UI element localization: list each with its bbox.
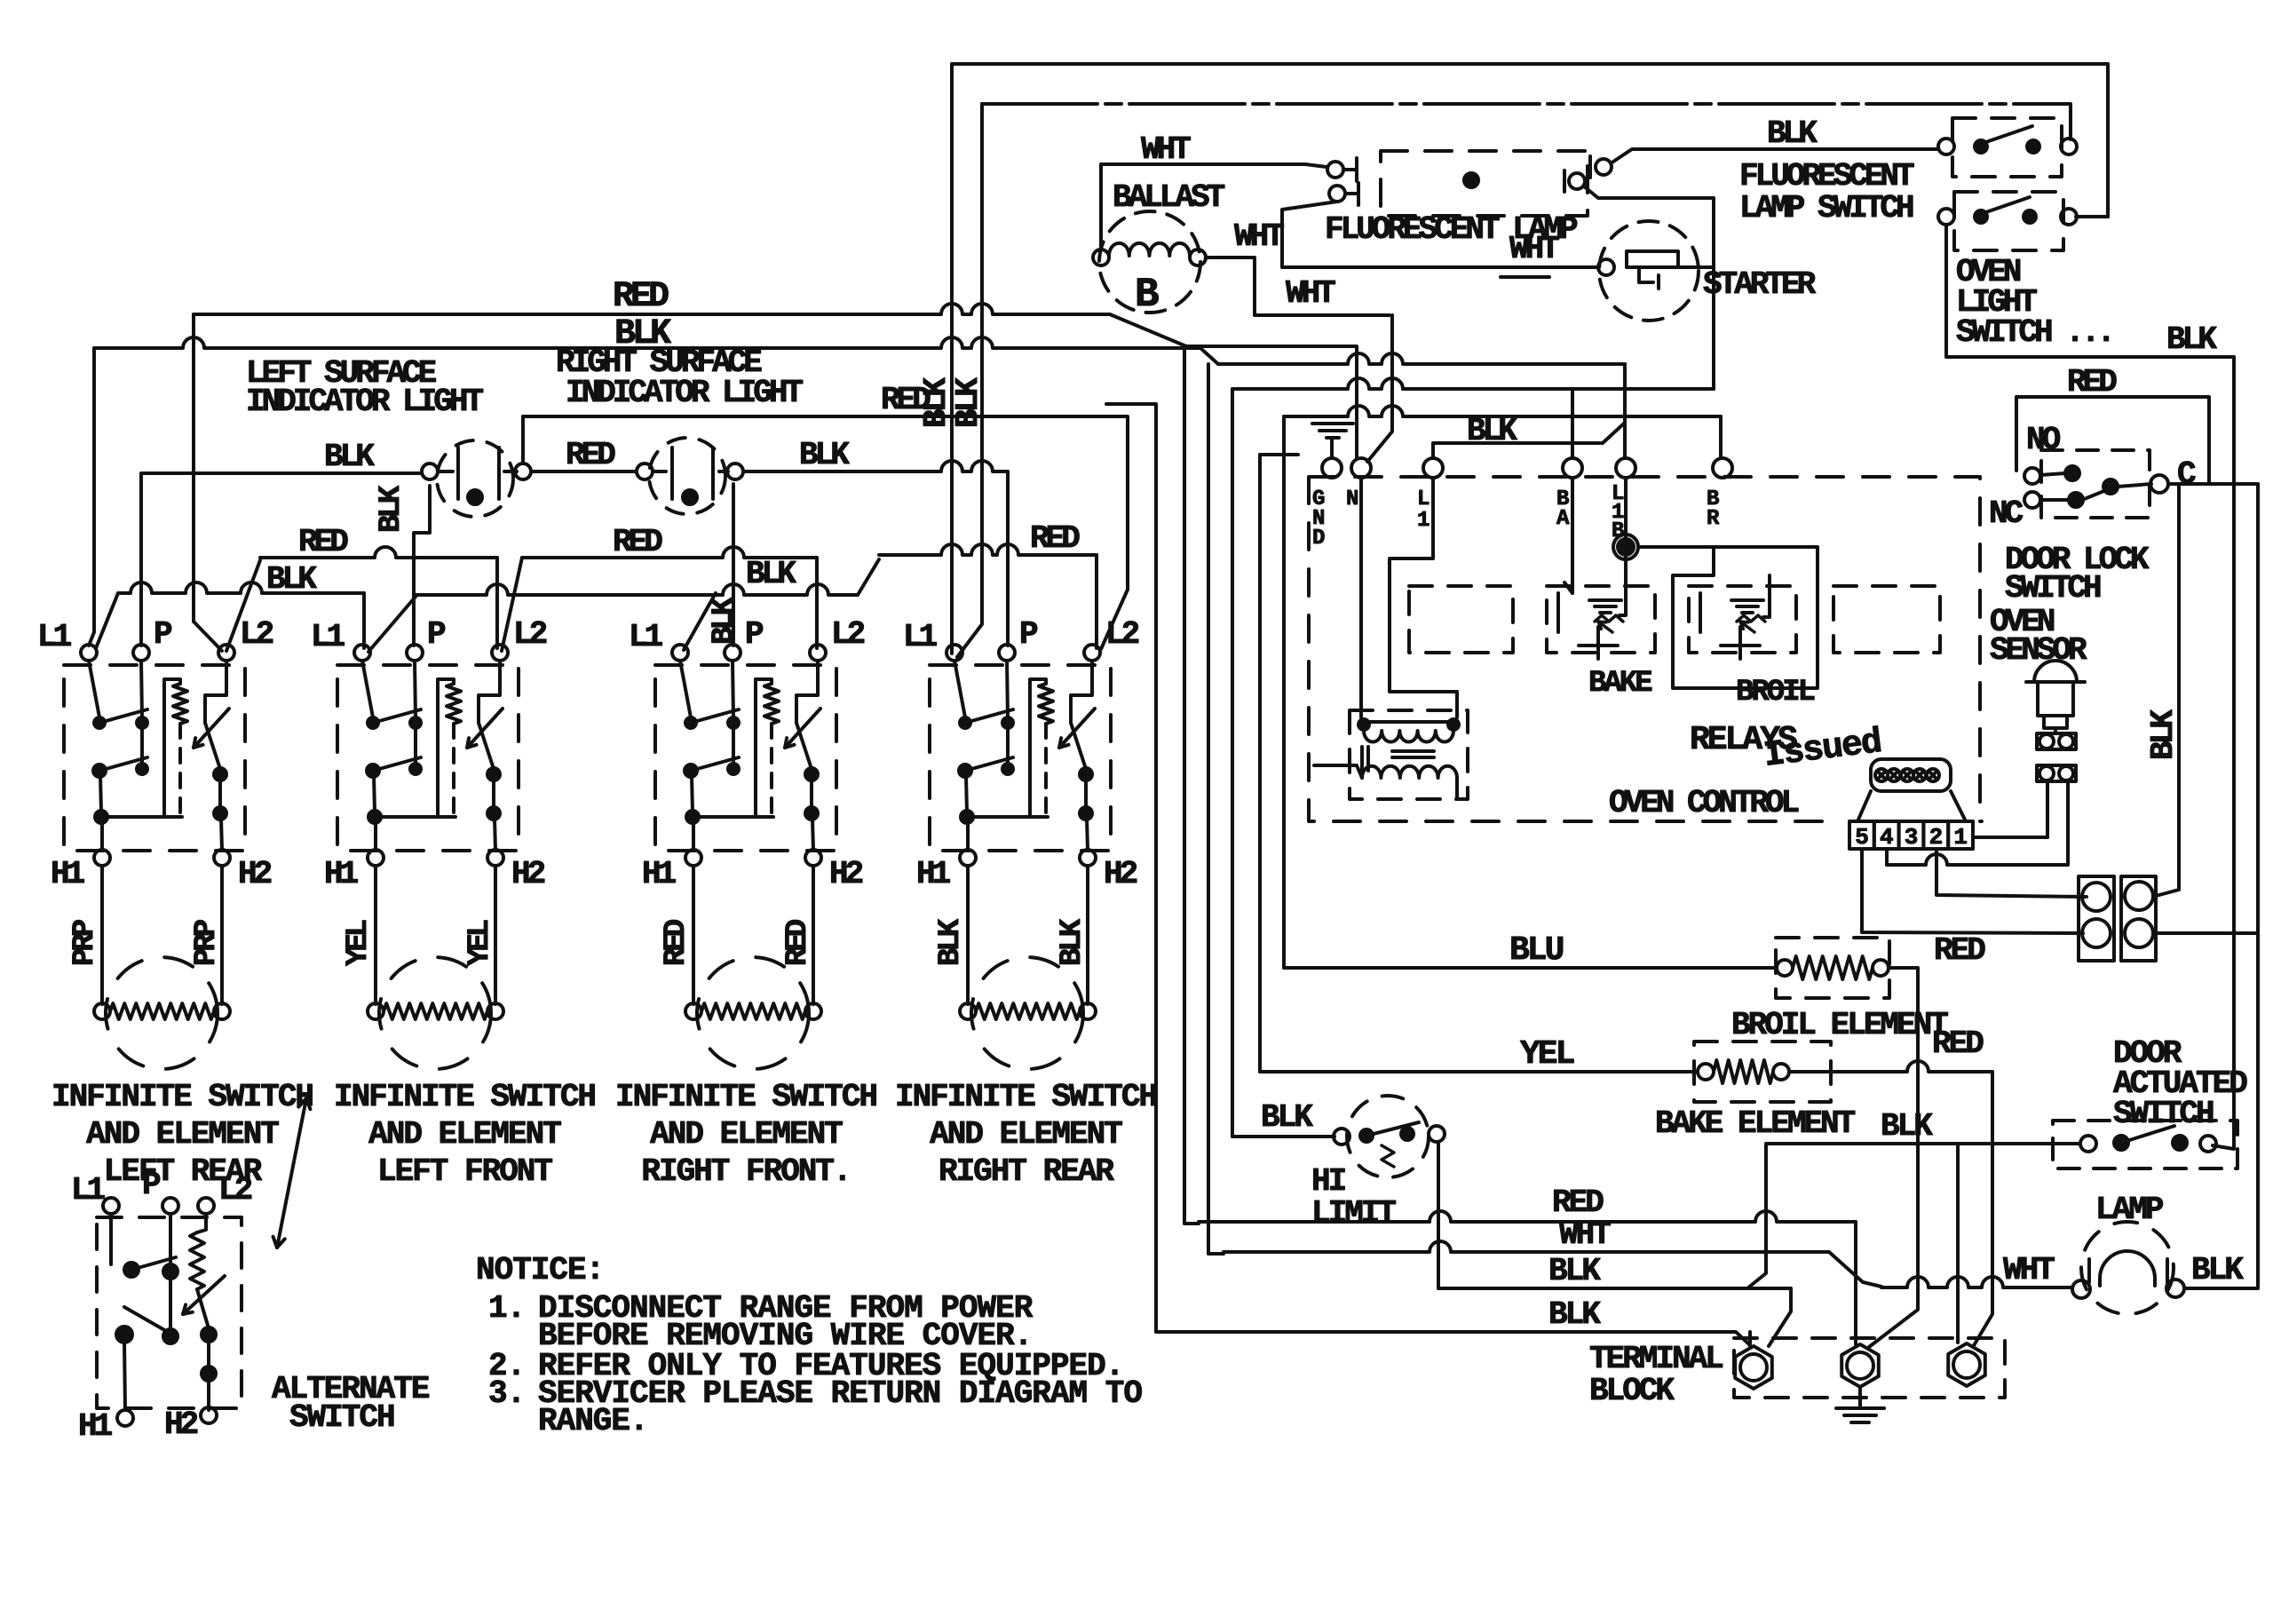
svg-text:NOTICE:: NOTICE: (476, 1252, 604, 1288)
wire RED bottom line (1184, 1222, 1199, 1225)
wire hi limit right down to BLK line (1437, 1142, 1440, 1288)
svg-text:BLK: BLK (1548, 1253, 1601, 1289)
svg-text:L2: L2 (513, 616, 547, 653)
wire pin1 to sensor left (1973, 836, 2047, 839)
relay box empty left (1409, 586, 1513, 653)
oven control dashed box (1309, 477, 1982, 821)
wire vertical BLK drop 1 (950, 64, 954, 654)
door lock contacts (2024, 468, 2040, 484)
svg-text:INFINITE SWITCH: INFINITE SWITCH (615, 1079, 876, 1115)
svg-text:2: 2 (1929, 824, 1944, 851)
svg-text:BAKE ELEMENT: BAKE ELEMENT (1655, 1105, 1856, 1142)
wire lamp top-right BLK to switch (1611, 149, 1938, 163)
svg-text:BLK: BLK (1881, 1108, 1933, 1145)
wire BA into bake relay (1571, 478, 1574, 593)
svg-text:PRP: PRP (68, 920, 102, 966)
infinite switch LEFT FRONT (354, 645, 370, 661)
svg-text:BALLAST: BALLAST (1113, 179, 1225, 216)
svg-text:RIGHT FRONT.: RIGHT FRONT. (641, 1153, 850, 1190)
wire BLK sub-bus sw1-sw2 (96, 593, 118, 648)
svg-text:TERMINAL: TERMINAL (1589, 1341, 1723, 1377)
svg-text:R: R (1707, 507, 1720, 531)
fluorescent lamp switch (1952, 118, 2062, 177)
svg-text:RED: RED (613, 524, 662, 560)
svg-text:LIMIT: LIMIT (1311, 1195, 1396, 1232)
wire sensor right down (2066, 781, 2070, 863)
terminal post left (1735, 1346, 1772, 1389)
wire pin2 to lock block upper (1936, 849, 2087, 897)
terminal BA (1563, 458, 1582, 478)
ground symbol above GND (1312, 422, 1353, 425)
transformer (1350, 710, 1468, 799)
wire nest vertical v5 YEL (1260, 453, 1298, 456)
infinite switch LEFT REAR (81, 645, 97, 661)
wire lamp lower-right to starter vertical (1584, 186, 1714, 389)
infinite switch RIGHT REAR (946, 645, 962, 661)
svg-text:BLK: BLK (708, 597, 741, 645)
broil element (1776, 938, 1889, 998)
wire oven light switch left down and BLK to right edge (1946, 225, 2234, 357)
svg-text:WHT: WHT (2003, 1252, 2055, 1288)
svg-text:BLK: BLK (1767, 115, 1818, 152)
wire right edge BLK down to door actuated switch (2213, 357, 2234, 1149)
wire YEL to bake element (1260, 1070, 1696, 1073)
terminal post middle (1841, 1344, 1879, 1387)
svg-text:BLK: BLK (1056, 918, 1089, 966)
svg-text:RED: RED (1552, 1184, 1604, 1221)
svg-text:H2: H2 (511, 856, 545, 892)
svg-text:1: 1 (1417, 509, 1430, 533)
svg-text:BLK: BLK (746, 556, 796, 592)
svg-text:4: 4 (1880, 824, 1894, 851)
wire bus line3 to BR (1284, 406, 1721, 416)
wire lock block right lower to right edge (2156, 931, 2258, 935)
svg-text:NC: NC (1989, 495, 2024, 532)
svg-text:L1: L1 (71, 1172, 106, 1208)
infinite switch RIGHT FRONT (672, 645, 688, 661)
wire RED sub-bus sw3-sw4 (879, 544, 1097, 555)
svg-text:BLK: BLK (375, 485, 408, 533)
svg-text:L2: L2 (218, 1172, 252, 1208)
wire second BLK feeder (dash-dot) (982, 104, 2071, 139)
ballast B (1099, 211, 1200, 313)
svg-text:H2: H2 (164, 1406, 198, 1443)
wire WHT drop to N (1367, 315, 1392, 462)
svg-text:SWITCH: SWITCH (289, 1399, 394, 1436)
wire nest vertical v3 WHT (1207, 364, 1210, 1254)
wire L1B junction to broil relay solid enclosure (1638, 545, 1714, 549)
svg-text:H1: H1 (78, 1408, 113, 1445)
door lock block left (2079, 876, 2114, 961)
svg-text:WHT: WHT (1234, 218, 1284, 255)
relay BROIL (1689, 586, 1796, 653)
wire door BLK down to right post (1956, 1144, 1960, 1343)
svg-text:RED: RED (781, 919, 815, 966)
svg-text:WHT: WHT (1559, 1216, 1611, 1253)
svg-text:INFINITE SWITCH: INFINITE SWITCH (895, 1079, 1156, 1115)
relay BAKE (1547, 586, 1655, 653)
svg-text:AND ELEMENT: AND ELEMENT (368, 1116, 561, 1153)
svg-text:YEL: YEL (1520, 1035, 1574, 1073)
wire nest vertical v4 hi-limit BLK (1231, 389, 1234, 1137)
wire bake element RED to right post (1789, 1061, 1992, 1072)
svg-text:L2: L2 (831, 616, 865, 653)
hi limit (1347, 1096, 1429, 1177)
lamp right pins (1596, 159, 1612, 175)
svg-text:RED: RED (613, 277, 669, 317)
wire top BLK feeder (952, 62, 2108, 66)
svg-text:BLK: BLK (2191, 1252, 2244, 1288)
svg-text:BLK: BLK (2166, 321, 2217, 358)
svg-text:BLK: BLK (1261, 1099, 1313, 1136)
wire BLK line3 hi-limit to left post (1438, 1288, 1791, 1346)
wire bus line2 to BA and starter vertical (1232, 378, 1714, 389)
terminal L1 (1423, 458, 1443, 478)
svg-text:RED: RED (566, 437, 615, 473)
wire pin5 to lock block lower (1862, 849, 2083, 933)
svg-text:INFINITE SWITCH: INFINITE SWITCH (51, 1079, 313, 1115)
relay box empty right (1833, 586, 1940, 653)
svg-text:H2: H2 (829, 856, 863, 892)
svg-text:L1: L1 (903, 619, 938, 655)
svg-text:RANGE.: RANGE. (538, 1403, 648, 1439)
wire BLK line4 to left post (1156, 1332, 1750, 1345)
wire L1 BLK stub (1433, 423, 1625, 458)
wire vertical BLK drop 2 (957, 104, 982, 657)
svg-text:BLK: BLK (2145, 709, 2182, 760)
terminal GND (1322, 458, 1342, 478)
svg-text:H1: H1 (642, 856, 677, 892)
ground symbol below middle post (1858, 1387, 1862, 1408)
arrow to alternate switch (277, 1098, 306, 1248)
svg-text:INDICATOR LIGHT: INDICATOR LIGHT (566, 375, 803, 411)
svg-text:RED: RED (881, 382, 931, 418)
svg-text:BAKE: BAKE (1588, 667, 1652, 701)
terminal L1B (1616, 458, 1635, 478)
svg-text:BLU: BLU (1509, 931, 1564, 970)
fluorescent lamp (1381, 151, 1588, 216)
wire RED sub-bus sw1-sw2 (226, 560, 260, 651)
wire ballast right WHT to starter/N (1206, 257, 1390, 315)
svg-text:H2: H2 (1104, 856, 1137, 892)
svg-text:BLK: BLK (934, 918, 968, 966)
svg-text:3: 3 (1905, 824, 1919, 851)
svg-text:SWITCH: SWITCH (2113, 1096, 2214, 1132)
terminal BR (1713, 458, 1732, 478)
wire RED from left indicator up over to L2 sw4 (523, 416, 1128, 649)
wire diagonal to L1 sw3 (684, 593, 716, 650)
svg-text:BLK: BLK (799, 437, 850, 473)
wire broil element RED to middle post (1869, 968, 1918, 1347)
wire BLK from right indicator right to P sw4 (743, 461, 1008, 471)
svg-text:BLOCK: BLOCK (1589, 1373, 1675, 1409)
svg-text:SWITCH: SWITCH (2005, 570, 2101, 606)
terminal post right (1948, 1343, 1985, 1386)
svg-text:L2: L2 (1105, 616, 1139, 653)
svg-text:BLK: BLK (1548, 1296, 1601, 1333)
svg-text:BLK: BLK (324, 439, 375, 475)
svg-text:SENSOR: SENSOR (1990, 632, 2087, 669)
wire RED main bus (194, 304, 1110, 314)
svg-text:L1: L1 (311, 619, 345, 655)
svg-text:1.: 1. (488, 1290, 525, 1327)
wire RED between indicators (531, 470, 637, 473)
svg-text:INDICATOR LIGHT: INDICATOR LIGHT (246, 384, 483, 420)
connector plug (1871, 759, 1951, 791)
svg-text:N: N (1346, 487, 1358, 511)
wire L1 down to transformer (1390, 478, 1457, 717)
wire L2 feeder switch1 from RED bus (194, 314, 222, 651)
svg-text:AND ELEMENT: AND ELEMENT (930, 1116, 1122, 1153)
svg-text:B: B (1135, 272, 1160, 318)
connector 5 4 3 2 1 (1849, 821, 1874, 849)
svg-text:BROIL: BROIL (1736, 676, 1815, 709)
wire nest vertical v1 to BLK terminal line (1106, 404, 1156, 1332)
svg-text:BLK: BLK (950, 377, 986, 428)
svg-text:WHT: WHT (1141, 131, 1191, 168)
wire BLU to broil element (1284, 966, 1777, 970)
wire C down to lock block (2156, 484, 2179, 896)
svg-text:L1: L1 (37, 619, 72, 655)
wire broil inner feed (1763, 575, 1770, 617)
wire L1B junction down into bake relay (1624, 478, 1628, 539)
wire L1 feeder switch1 (89, 348, 94, 646)
svg-text:RED: RED (1030, 520, 1080, 557)
door lock block right (2121, 876, 2156, 961)
svg-text:BROIL ELEMENT: BROIL ELEMENT (1731, 1007, 1948, 1043)
svg-text:RED: RED (2067, 364, 2117, 400)
svg-text:PRP: PRP (190, 920, 224, 966)
svg-text:A: A (1556, 507, 1570, 531)
wire BLK main bus (94, 337, 1200, 348)
alternate switch (103, 1198, 119, 1214)
svg-text:RED: RED (1932, 1026, 1984, 1062)
wire WHT bottom line (1208, 1252, 1224, 1256)
wire right indicator right terminal down to P sw3 (732, 484, 735, 646)
svg-text:FLUORESCENT: FLUORESCENT (1739, 158, 1914, 194)
lamp left pins (1327, 162, 1343, 178)
svg-text:H1: H1 (916, 856, 951, 892)
svg-text:INFINITE SWITCH: INFINITE SWITCH (334, 1079, 595, 1115)
terminal N (1351, 458, 1371, 478)
wire left indicator left terminal down to P sw2 (414, 486, 430, 646)
wire WHT to lamp (1881, 1277, 2072, 1287)
svg-text:3.: 3. (488, 1375, 525, 1412)
wire BLK sub-bus sw2-sw3 (368, 597, 416, 652)
svg-text:RED: RED (298, 524, 348, 560)
svg-text:1: 1 (1953, 824, 1968, 851)
svg-text:H1: H1 (51, 856, 85, 892)
svg-text:OVEN CONTROL: OVEN CONTROL (1609, 785, 1799, 821)
oven light switch contacts (1938, 209, 1954, 225)
wire RED sub-bus sw2-sw3 (502, 558, 522, 651)
wire lamp BLK to right edge (2184, 484, 2258, 1288)
svg-text:BLK: BLK (1467, 413, 1517, 449)
wire lamp lower-left WHT down (1282, 202, 1598, 267)
wire sensor left down to connector 1 (2046, 781, 2049, 837)
svg-text:LAMP SWITCH: LAMP SWITCH (1739, 190, 1913, 226)
svg-text:L1: L1 (629, 619, 663, 655)
wire ballast left to lamp (1101, 164, 1327, 250)
wire nest vertical v2 RED (1183, 346, 1186, 1224)
svg-text:5: 5 (1855, 824, 1869, 851)
svg-text:WHT: WHT (1509, 231, 1559, 267)
svg-text:H2: H2 (238, 856, 272, 892)
svg-text:RED: RED (1934, 932, 1985, 969)
starter (1599, 221, 1699, 321)
svg-text:AND ELEMENT: AND ELEMENT (650, 1116, 843, 1153)
wire pin4 to sensor right (1887, 854, 2068, 865)
svg-text:AND ELEMENT: AND ELEMENT (86, 1116, 279, 1153)
wire N down to transformer (1359, 478, 1363, 717)
bake element (1694, 1042, 1831, 1102)
svg-text:H1: H1 (324, 856, 359, 892)
svg-text:YEL: YEL (342, 920, 376, 966)
svg-text:LEFT FRONT: LEFT FRONT (377, 1153, 552, 1190)
svg-text:SWITCH ...: SWITCH ... (1956, 314, 2112, 351)
svg-text:RIGHT REAR: RIGHT REAR (939, 1153, 1114, 1190)
wire nest vertical v6 BLU (1282, 416, 1286, 968)
svg-text:L2: L2 (240, 616, 273, 653)
svg-text:HI: HI (1311, 1163, 1345, 1200)
wire bake BLK to door actuated switch (1747, 1144, 2080, 1288)
svg-text:BLK: BLK (266, 561, 317, 598)
svg-text:YEL: YEL (463, 920, 497, 966)
svg-text:L: L (1417, 487, 1430, 511)
wire BLK into hi limit (1232, 1135, 1334, 1138)
svg-text:RED: RED (660, 919, 693, 966)
wire BLK from left indicator to P sw1 (141, 473, 422, 646)
svg-text:STARTER: STARTER (1703, 266, 1817, 303)
svg-text:NO: NO (2026, 422, 2061, 458)
svg-text:D: D (1312, 527, 1325, 551)
svg-text:WHT: WHT (1286, 275, 1335, 312)
